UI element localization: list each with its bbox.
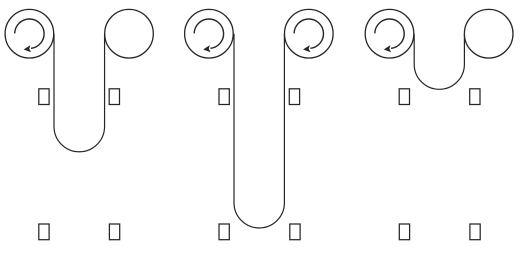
rotation arrow arc, supply reel unit 1 bbox=[15, 19, 44, 48]
upper-right sensor window, unit 3 bbox=[470, 89, 480, 105]
upper-right sensor window, unit 1 bbox=[109, 89, 119, 105]
rotation arrowhead, take-up reel unit 2 bbox=[303, 45, 311, 52]
rotation arrowhead, supply reel unit 2 bbox=[203, 45, 211, 52]
lower-right sensor window, unit 3 bbox=[470, 224, 480, 240]
supply reel, unit 1 bbox=[5, 9, 54, 58]
tape loop, unit 3 bbox=[414, 34, 464, 90]
supply reel, unit 2 bbox=[185, 9, 234, 58]
take-up reel, unit 1 bbox=[105, 9, 154, 58]
take-up reel, unit 2 bbox=[285, 9, 334, 58]
tape loop, unit 1 bbox=[54, 34, 105, 152]
upper-left sensor window, unit 2 bbox=[219, 89, 229, 105]
tape loop, unit 2 bbox=[234, 34, 284, 228]
take-up reel, unit 3 bbox=[464, 9, 513, 58]
upper-right sensor window, unit 2 bbox=[289, 89, 299, 105]
upper-left sensor window, unit 1 bbox=[39, 89, 49, 105]
rotation arrowhead, supply reel unit 1 bbox=[24, 45, 32, 52]
lower-left sensor window, unit 2 bbox=[219, 224, 229, 240]
supply reel, unit 3 bbox=[365, 9, 414, 58]
lower-left sensor window, unit 3 bbox=[399, 224, 409, 240]
lower-left sensor window, unit 1 bbox=[39, 224, 49, 240]
lower-right sensor window, unit 2 bbox=[290, 224, 300, 240]
upper-left sensor window, unit 3 bbox=[399, 89, 409, 105]
rotation arrow arc, supply reel unit 3 bbox=[375, 19, 404, 48]
rotation arrow arc, supply reel unit 2 bbox=[194, 19, 223, 48]
lower-right sensor window, unit 1 bbox=[109, 224, 119, 240]
rotation arrowhead, supply reel unit 3 bbox=[384, 45, 392, 52]
rotation arrow arc, take-up reel unit 2 bbox=[294, 19, 323, 48]
